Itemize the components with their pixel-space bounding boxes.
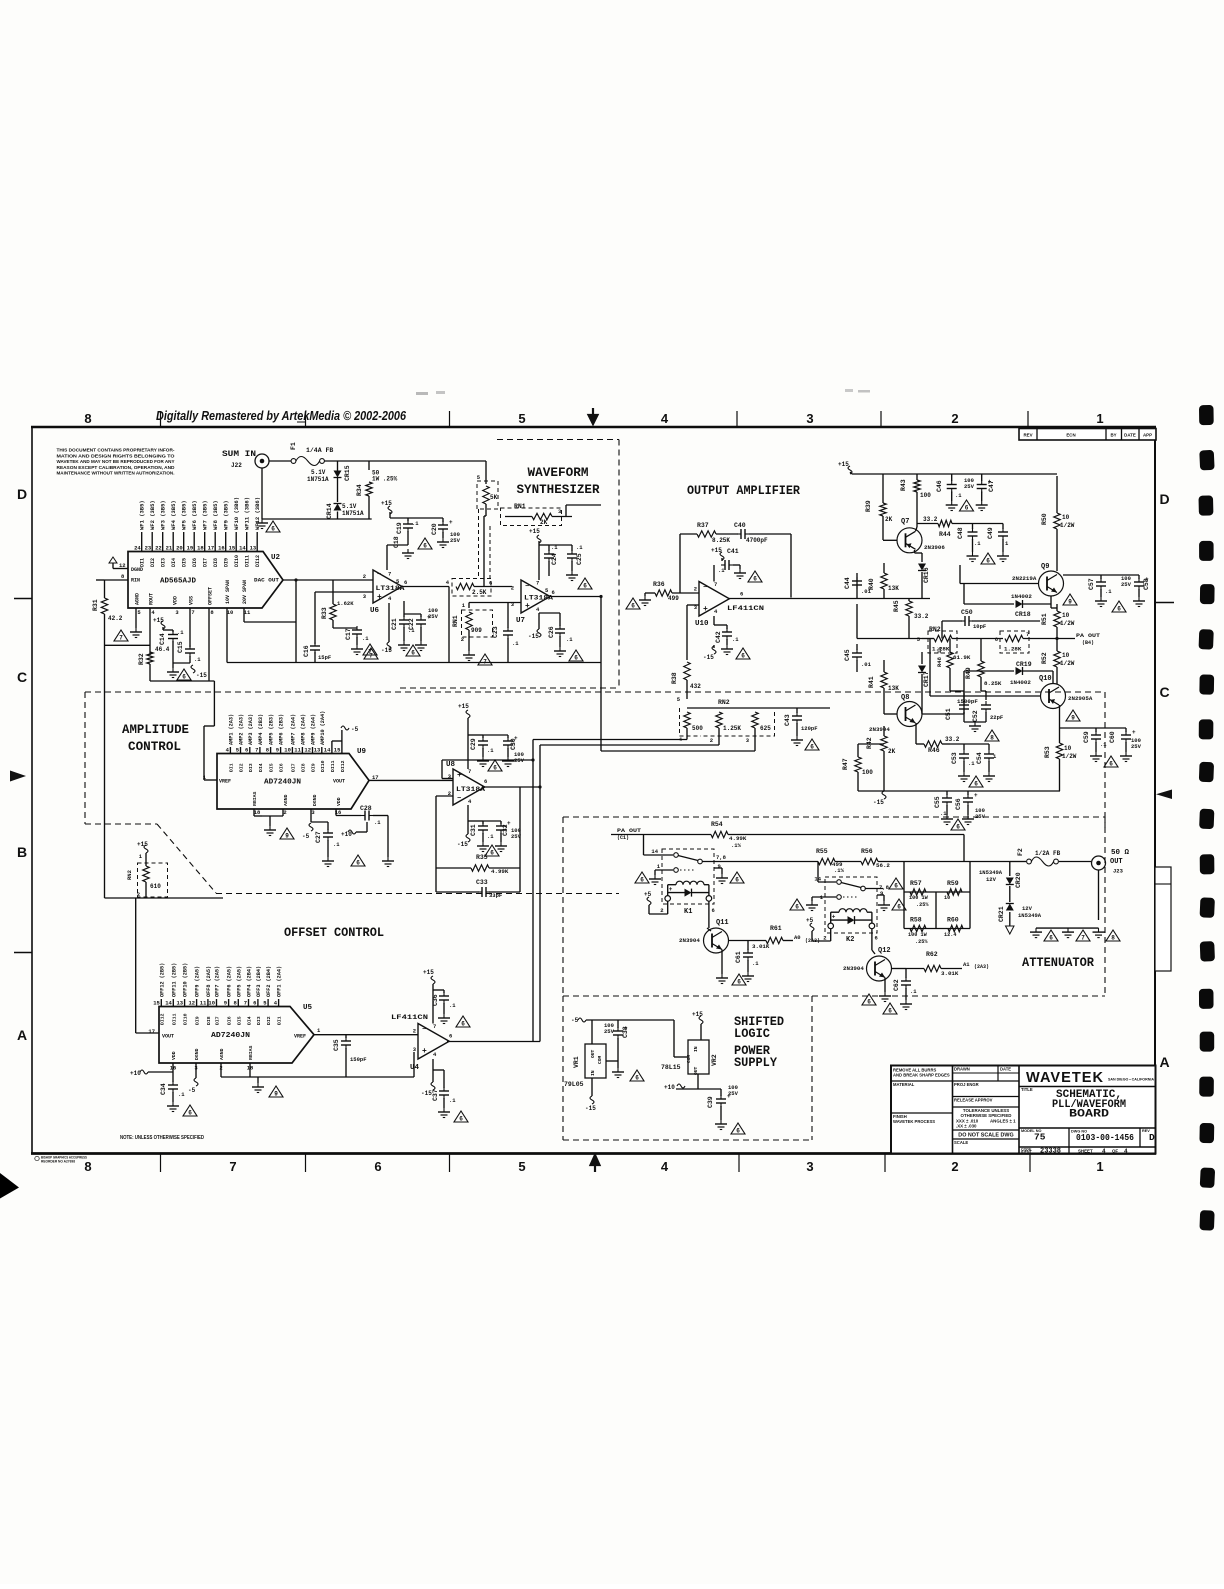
svg-text:DI7: DI7 — [290, 763, 296, 772]
ground under C26 — [559, 647, 561, 651]
svg-text:OFF4 (2B4): OFF4 (2B4) — [247, 966, 253, 997]
svg-text:Q10: Q10 — [1039, 675, 1052, 683]
svg-text:OUT: OUT — [590, 1049, 596, 1058]
svg-text:WF10 (3B6): WF10 (3B6) — [233, 497, 240, 530]
svg-text:6: 6 — [867, 999, 871, 1006]
svg-text:-15: -15 — [421, 1090, 432, 1097]
svg-text:MATERIAL: MATERIAL — [893, 1082, 915, 1087]
svg-text:6: 6 — [888, 1008, 892, 1015]
capacitor C58 100 25V polarized — [1138, 575, 1140, 579]
ground under C37 — [443, 1108, 445, 1112]
ground under C43 — [796, 736, 798, 740]
svg-text:DI4: DI4 — [247, 1016, 253, 1025]
ground flag 6 under C48 — [981, 553, 995, 564]
svg-text:1500pF: 1500pF — [957, 698, 978, 705]
zener CR21 12V 1N5349A — [1006, 904, 1014, 911]
fuse F1 1/4A FB — [291, 459, 296, 464]
svg-text:LOGIC: LOGIC — [734, 1027, 770, 1041]
svg-text:DI8: DI8 — [300, 763, 306, 772]
svg-text:42.2: 42.2 — [108, 615, 123, 622]
svg-text:RN1: RN1 — [514, 503, 526, 510]
svg-text:10: 10 — [284, 747, 291, 754]
svg-text:7: 7 — [433, 1023, 436, 1030]
svg-text:5.1V: 5.1V — [342, 503, 357, 510]
svg-text:R40: R40 — [868, 578, 875, 590]
svg-text:Q12: Q12 — [878, 947, 891, 955]
svg-text:+15: +15 — [529, 528, 540, 535]
ground flag 7 at R31 — [114, 630, 128, 641]
wire Q7 base — [883, 539, 897, 541]
svg-text:6: 6 — [737, 979, 741, 986]
svg-text:1N751A: 1N751A — [307, 476, 329, 483]
svg-text:25V: 25V — [604, 1028, 615, 1035]
svg-text:5: 5 — [518, 1159, 525, 1174]
svg-text:OF: OF — [1112, 1148, 1118, 1153]
svg-text:AD7240JN: AD7240JN — [211, 1032, 250, 1040]
ground at U5 AGND — [257, 1077, 259, 1083]
svg-text:10: 10 — [208, 1000, 215, 1007]
zener CR14 5.1V 1N751A — [334, 504, 342, 511]
capacitor C57 .1 — [1100, 575, 1102, 579]
svg-text:100 1W: 100 1W — [908, 932, 928, 938]
svg-text:C27: C27 — [315, 831, 322, 843]
ground flag 6 at Q12 — [862, 994, 876, 1005]
svg-text:7: 7 — [119, 635, 123, 642]
amplitude control dashed boundary — [85, 691, 1105, 693]
capacitor C43 120pF — [796, 708, 798, 713]
capacitor C25 .1 — [549, 544, 572, 546]
ground under C14 C15 — [172, 668, 174, 672]
svg-text:Q9: Q9 — [1041, 563, 1049, 571]
wire 5K junction down to U6 out node — [484, 515, 486, 517]
svg-text:11: 11 — [244, 609, 251, 616]
svg-text:33.2: 33.2 — [923, 516, 938, 523]
svg-text:C50: C50 — [961, 609, 973, 616]
svg-text:DI11: DI11 — [245, 555, 251, 567]
svg-text:6: 6 — [271, 526, 275, 533]
svg-text:DI5: DI5 — [236, 1016, 242, 1025]
left fold arrow — [10, 771, 26, 782]
ground flag 6 at C41 — [748, 571, 762, 582]
svg-text:CR20: CR20 — [1015, 872, 1022, 888]
supply +10 at C28 — [348, 830, 356, 834]
svg-text:.1: .1 — [974, 540, 981, 547]
svg-text:21: 21 — [166, 545, 173, 552]
wire DAC OUT to U6 — [283, 579, 373, 581]
svg-text:WF3 (3B5): WF3 (3B5) — [160, 500, 167, 530]
capacitor C27 .1 — [311, 821, 328, 823]
capacitor C31 .1 — [468, 820, 483, 822]
ground at J22 — [261, 519, 263, 523]
svg-text:499: 499 — [668, 595, 679, 602]
title block middle cells — [953, 1080, 1020, 1082]
svg-text:C54: C54 — [976, 752, 983, 764]
svg-text:17: 17 — [148, 1028, 155, 1035]
svg-text:DI11: DI11 — [330, 760, 336, 772]
ground flag 6 under C36 — [456, 1016, 470, 1027]
svg-text:6: 6 — [1117, 606, 1121, 613]
svg-text:19: 19 — [187, 545, 194, 552]
wire Q11 collector from K1 — [707, 928, 711, 931]
svg-text:MAINTENANCE WITHOUT WRITTEN AU: MAINTENANCE WITHOUT WRITTEN AUTHORIZATIO… — [57, 471, 175, 476]
svg-text:1/2A FB: 1/2A FB — [1035, 850, 1061, 857]
svg-text:.1: .1 — [449, 1097, 456, 1104]
svg-text:DI3: DI3 — [256, 1016, 262, 1025]
svg-text:.1: .1 — [487, 747, 494, 754]
svg-text:J23: J23 — [1113, 868, 1124, 875]
connector J23 50 ohm OUT — [1092, 856, 1106, 870]
ground flag 6 at C38 — [630, 1070, 644, 1081]
svg-text:33.2: 33.2 — [914, 613, 929, 620]
svg-text:6: 6 — [640, 877, 644, 884]
wire R31 long vertical to bottom bus — [104, 614, 106, 898]
svg-text:IDENT: IDENT — [1021, 1150, 1033, 1154]
supply -15 at VSS — [191, 665, 195, 673]
svg-text:C59: C59 — [1083, 731, 1090, 743]
wire U8 output — [482, 786, 540, 788]
svg-text:6: 6 — [245, 747, 248, 754]
svg-text:R34: R34 — [356, 484, 363, 496]
svg-text:6: 6 — [182, 674, 186, 681]
ground under C34 — [172, 1102, 174, 1106]
svg-text:7: 7 — [229, 1159, 236, 1174]
svg-text:OFF11 (2B5): OFF11 (2B5) — [171, 963, 177, 997]
svg-text:14: 14 — [651, 848, 658, 855]
svg-text:AMP4 (2B3): AMP4 (2B3) — [258, 714, 264, 745]
svg-text:U4: U4 — [410, 1064, 420, 1072]
svg-text:BOARD: BOARD — [1069, 1109, 1109, 1121]
svg-text:9: 9 — [285, 833, 289, 840]
svg-text:1W .25%: 1W .25% — [372, 476, 398, 483]
scanner smudge marks — [416, 392, 428, 395]
svg-text:.1: .1 — [910, 988, 917, 995]
svg-text:9: 9 — [880, 890, 883, 897]
svg-text:-5: -5 — [188, 1087, 196, 1094]
right fold arrow — [1156, 790, 1172, 800]
svg-text:Q8: Q8 — [901, 694, 909, 702]
svg-text:-15: -15 — [381, 647, 392, 654]
svg-text:6: 6 — [741, 653, 745, 660]
wire OFFSET pin down to bus — [208, 608, 210, 681]
svg-text:R62: R62 — [926, 951, 938, 958]
svg-text:AD565AJD: AD565AJD — [160, 578, 196, 586]
binder hole marks right edge — [1199, 405, 1214, 425]
wire VR2 OUT down — [697, 1074, 699, 1089]
svg-text:C41: C41 — [727, 548, 739, 555]
svg-text:.1: .1 — [576, 544, 583, 551]
ground flag 8 on bus — [1106, 930, 1120, 941]
svg-text:+10: +10 — [341, 831, 352, 838]
svg-text:DI2: DI2 — [239, 763, 245, 772]
svg-text:SHEET: SHEET — [1078, 1148, 1093, 1153]
svg-text:R45: R45 — [893, 600, 900, 612]
svg-text:10: 10 — [1064, 745, 1072, 752]
svg-text:ECN: ECN — [1066, 433, 1075, 438]
svg-text:12.4: 12.4 — [944, 932, 956, 938]
svg-text:IN: IN — [590, 1070, 596, 1076]
wire Q7 collector — [916, 527, 918, 531]
arrow terminal below CR21 — [1006, 926, 1015, 934]
resistor R32 46.4 — [147, 652, 153, 664]
svg-text:C21: C21 — [391, 618, 398, 630]
svg-text:DI6: DI6 — [227, 1016, 233, 1025]
capacitor C32 100 25V polarized — [483, 820, 501, 822]
svg-text:22: 22 — [155, 545, 162, 552]
wire VR1 COM right — [606, 1060, 618, 1062]
svg-text:-5: -5 — [571, 1017, 579, 1024]
svg-text:6: 6 — [1049, 935, 1053, 942]
wire U7 output to trunk — [549, 596, 601, 598]
svg-text:24: 24 — [134, 545, 141, 552]
svg-text:2K: 2K — [888, 748, 896, 755]
svg-text:2: 2 — [413, 1028, 416, 1035]
svg-text:6: 6 — [735, 877, 739, 884]
wire trunk down from U7 out — [600, 597, 602, 752]
svg-text:+: + — [703, 605, 708, 614]
svg-text:C62: C62 — [893, 979, 900, 991]
svg-text:56.2: 56.2 — [876, 862, 890, 869]
drawing frame border — [31, 426, 1156, 429]
svg-text:6: 6 — [253, 1000, 256, 1007]
svg-text:C47: C47 — [988, 480, 995, 492]
svg-text:9: 9 — [274, 1091, 278, 1098]
wire U4 pin4 -15 — [432, 1059, 434, 1082]
svg-text:2N3904: 2N3904 — [679, 937, 700, 944]
resistor R50 10 1/2W — [1056, 476, 1058, 513]
wire J22 down to ground — [261, 468, 263, 519]
capacitor C42 .1 — [713, 616, 715, 625]
svg-text:C49: C49 — [987, 527, 994, 539]
capacitor C24 .1 — [539, 544, 549, 546]
wire stub CR15 R34 column — [337, 461, 339, 470]
capacitor C56 100 25V polarized — [967, 791, 969, 795]
svg-text:C16: C16 — [303, 645, 310, 657]
ground flag 6 left of R57 — [889, 878, 903, 889]
svg-text:610: 610 — [150, 883, 161, 890]
svg-text:DI9: DI9 — [224, 558, 230, 567]
svg-text:3: 3 — [806, 1159, 813, 1174]
dashed corridor RN1 — [478, 509, 480, 578]
svg-text:COM: COM — [597, 1055, 603, 1064]
svg-text:25V: 25V — [450, 537, 461, 544]
svg-text:1.25K: 1.25K — [723, 725, 741, 732]
wire Q12 base right — [892, 968, 907, 970]
svg-text:.25%: .25% — [916, 902, 929, 908]
svg-text:DRAWN: DRAWN — [954, 1067, 970, 1072]
svg-text:8.25K: 8.25K — [984, 680, 1002, 687]
svg-text:PA OUT: PA OUT — [617, 827, 642, 834]
wire 20V span pin feedback — [243, 608, 245, 622]
wire main line to R55 — [726, 861, 818, 863]
svg-text:VOUT: VOUT — [333, 779, 345, 785]
ground under C42 — [726, 645, 728, 649]
svg-text:R46: R46 — [928, 747, 940, 754]
svg-text:DGND: DGND — [194, 1048, 200, 1060]
svg-text:10pF: 10pF — [973, 623, 986, 630]
svg-text:REV: REV — [1023, 433, 1032, 438]
svg-text:THIS DOCUMENT CONTAINS PROP: THIS DOCUMENT CONTAINS PROPRIETARY INFOR… — [57, 448, 175, 453]
wire U9 pins 14 15 to -5 — [331, 741, 333, 753]
svg-text:33.2: 33.2 — [945, 736, 960, 743]
capacitor C59 .1 — [1060, 727, 1097, 729]
capacitor C34 .1 — [172, 1072, 174, 1082]
svg-text:WF9 (3B5): WF9 (3B5) — [223, 500, 230, 530]
svg-text:4.99K: 4.99K — [729, 835, 747, 842]
svg-text:RBIAS: RBIAS — [252, 791, 258, 806]
capacitor C53 .1 — [963, 744, 965, 750]
svg-text:2N3904: 2N3904 — [843, 965, 864, 972]
svg-text:DI2: DI2 — [150, 558, 156, 567]
svg-text:(2A3): (2A3) — [974, 964, 989, 970]
svg-text:+5: +5 — [806, 917, 814, 924]
svg-text:8: 8 — [84, 411, 91, 426]
svg-text:2N2219A: 2N2219A — [1012, 575, 1037, 582]
bottom fold arrow — [591, 1155, 600, 1172]
capacitor C39 100 25V polarized — [698, 1088, 721, 1090]
wire K2 feed drop — [817, 862, 819, 883]
svg-text:4: 4 — [1102, 1148, 1106, 1155]
svg-text:1: 1 — [1096, 411, 1103, 426]
ground bus under CR14 R34 — [262, 518, 372, 520]
svg-text:9: 9 — [718, 863, 721, 870]
resistor R34 50 1W .25% — [366, 482, 372, 496]
svg-text:DI9: DI9 — [311, 763, 317, 772]
wire U10 +input down — [687, 604, 699, 606]
ground flag 9 at Q10 — [1066, 710, 1080, 721]
wire U4 output — [447, 1041, 540, 1043]
wire 10V span pin to bus — [226, 608, 228, 663]
svg-text:.1: .1 — [718, 567, 725, 574]
wire 2K to C24 rail — [565, 505, 567, 517]
bottom zone ruler ticks — [160, 1153, 162, 1172]
ground at AGND pin5 — [135, 608, 137, 628]
wire U6 +input — [315, 591, 373, 593]
ground under C39 — [720, 1120, 722, 1124]
resistor R31 42.2 — [104, 580, 106, 598]
capacitor C19 .1 — [407, 518, 409, 521]
svg-text:AD7240JN: AD7240JN — [264, 779, 301, 787]
DAC U2 AD565AJD body — [128, 552, 283, 609]
svg-text:R52: R52 — [1041, 652, 1048, 664]
svg-text:−: − — [525, 583, 529, 591]
svg-text:OUTPUT AMPLIFIER: OUTPUT AMPLIFIER — [687, 484, 800, 498]
svg-text:Q7: Q7 — [901, 518, 909, 526]
svg-text:1/2W: 1/2W — [1062, 753, 1077, 760]
svg-text:DI2: DI2 — [266, 1016, 272, 1025]
svg-text:WAVETEK PROCESS: WAVETEK PROCESS — [893, 1119, 935, 1124]
wire U5 AGND RBIAS bus — [220, 1063, 222, 1077]
svg-text:R31: R31 — [92, 599, 99, 611]
svg-text:7: 7 — [536, 580, 539, 587]
capacitor C44 .01 — [856, 573, 858, 599]
svg-text:8: 8 — [990, 735, 994, 742]
DAC U9 AD7240JN body — [217, 754, 369, 810]
svg-text:U7: U7 — [516, 617, 525, 625]
svg-text:6: 6 — [974, 781, 978, 788]
svg-text:CR14: CR14 — [326, 503, 333, 519]
svg-text:9: 9 — [1071, 715, 1075, 722]
relay K2 coil — [839, 909, 867, 912]
svg-text:6: 6 — [635, 1075, 639, 1082]
grounds under C57 C58 — [1100, 597, 1102, 601]
svg-text:R32: R32 — [138, 653, 145, 665]
svg-text:VOUT: VOUT — [162, 1034, 174, 1040]
svg-text:1N4002: 1N4002 — [1011, 593, 1032, 600]
ground under C27 — [327, 857, 329, 861]
ground under C62 — [905, 1000, 907, 1004]
svg-text:6: 6 — [897, 904, 901, 911]
svg-text:WAVETEK: WAVETEK — [1026, 1070, 1104, 1086]
ground flag 6 at C27 — [351, 855, 365, 866]
zener CR15 — [334, 471, 342, 478]
svg-text:.1: .1 — [333, 841, 340, 848]
svg-text:7: 7 — [1081, 935, 1085, 942]
svg-text:.XX ± .030: .XX ± .030 — [956, 1124, 977, 1129]
capacitors C57 C58 rail — [1063, 574, 1139, 576]
wire fuse to node — [324, 460, 486, 462]
svg-text:79L05: 79L05 — [564, 1081, 584, 1088]
svg-text:909: 909 — [471, 627, 482, 634]
svg-text:0103-00-1456: 0103-00-1456 — [1076, 1132, 1134, 1143]
main rail PA OUT node — [856, 604, 858, 639]
wire J22 to fuse — [269, 460, 291, 462]
svg-text:R60: R60 — [947, 917, 959, 924]
svg-text:C45: C45 — [844, 649, 851, 661]
attenuator dashed boundary — [563, 816, 1105, 818]
svg-text:C30: C30 — [510, 738, 517, 750]
svg-text:.1: .1 — [194, 656, 201, 663]
svg-text:C25: C25 — [576, 553, 583, 565]
svg-text:VSS: VSS — [189, 596, 195, 605]
svg-text:13: 13 — [250, 545, 257, 552]
svg-text:6: 6 — [965, 505, 969, 512]
svg-text:12V: 12V — [986, 876, 997, 883]
code ident row — [1019, 1146, 1156, 1148]
svg-text:13: 13 — [176, 1000, 183, 1007]
svg-text:IN: IN — [693, 1046, 699, 1052]
svg-text:DI12: DI12 — [159, 1013, 165, 1025]
svg-text:-5: -5 — [302, 833, 310, 840]
svg-text:.1: .1 — [1100, 741, 1107, 748]
ground flag 6 under C55 — [951, 819, 965, 830]
svg-text:R48 1%: R48 1% — [936, 646, 943, 667]
svg-text:C44: C44 — [844, 577, 851, 589]
svg-text:CR16: CR16 — [923, 567, 930, 583]
svg-text:DGND: DGND — [131, 567, 143, 573]
svg-text:APP: APP — [1143, 433, 1152, 438]
svg-text:C17: C17 — [345, 628, 352, 640]
svg-text:10: 10 — [1062, 612, 1070, 619]
svg-text:2N2905A: 2N2905A — [1068, 695, 1093, 702]
svg-text:2K: 2K — [540, 519, 548, 526]
svg-text:.1: .1 — [512, 640, 519, 647]
ground flag 6 under C31 — [485, 845, 499, 856]
svg-text:10V SPAN: 10V SPAN — [225, 580, 231, 604]
svg-text:SUM IN: SUM IN — [222, 449, 256, 459]
svg-text:DGND: DGND — [312, 794, 318, 806]
wire VREF riser — [213, 681, 215, 726]
svg-text:5K: 5K — [490, 494, 498, 501]
zener CR16 — [921, 553, 923, 562]
svg-text:-15: -15 — [528, 633, 539, 640]
svg-text:F1: F1 — [290, 442, 297, 450]
svg-text:C19: C19 — [396, 522, 403, 534]
svg-text:+15: +15 — [153, 617, 164, 624]
wire Q8 base — [883, 702, 885, 714]
svg-text:R44: R44 — [939, 531, 951, 538]
svg-text:OFF2 (2B4): OFF2 (2B4) — [266, 966, 272, 997]
svg-text:AMP8 (2A4): AMP8 (2A4) — [300, 714, 306, 745]
